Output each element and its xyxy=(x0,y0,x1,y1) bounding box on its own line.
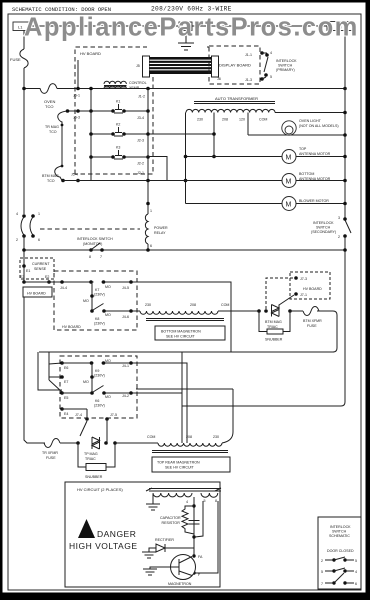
bottom magnetron xfmr winding xyxy=(140,311,218,314)
svg-text:TCO: TCO xyxy=(45,104,53,109)
svg-text:CAPACITOR: CAPACITOR xyxy=(160,516,181,520)
svg-text:TP MAG: TP MAG xyxy=(84,452,98,456)
interlock primary blade xyxy=(264,57,268,72)
left bus wire from L1 xyxy=(23,31,25,50)
svg-text:J2-2: J2-2 xyxy=(137,162,144,166)
svg-text:FUSE: FUSE xyxy=(10,57,21,62)
node J5-4 xyxy=(76,179,80,183)
svg-text:J7-5: J7-5 xyxy=(110,413,117,417)
svg-text:6: 6 xyxy=(355,582,357,586)
svg-text:ANTENNA MOTOR: ANTENNA MOTOR xyxy=(299,152,331,156)
svg-text:208: 208 xyxy=(186,435,192,439)
interlock secondary blade xyxy=(345,220,351,233)
node HV mid xyxy=(192,535,195,538)
bottom magnetron box xyxy=(155,326,225,340)
node E2 xyxy=(47,280,51,284)
svg-text:TCO: TCO xyxy=(47,179,55,183)
relay contact K1 row wire xyxy=(67,110,148,112)
svg-text:J3-4: J3-4 xyxy=(137,116,144,120)
display board dashed box xyxy=(209,46,260,84)
current sense dashed box xyxy=(20,258,54,279)
node main feed left xyxy=(22,87,26,91)
right bus wire xyxy=(344,31,346,251)
HV board label box xyxy=(23,287,52,297)
svg-text:MO: MO xyxy=(105,395,111,399)
svg-text:J4-6: J4-6 xyxy=(122,315,129,319)
node J1-3 xyxy=(260,77,264,81)
HV board top dashed box xyxy=(75,47,209,174)
svg-text:J5-1: J5-1 xyxy=(73,94,80,98)
node K3 x91 xyxy=(89,155,93,159)
wire fuse to corner xyxy=(317,311,337,352)
svg-text:CURRENT: CURRENT xyxy=(32,262,50,266)
interlock schematic box xyxy=(318,517,361,589)
svg-text:2: 2 xyxy=(16,238,18,242)
oven TCO xyxy=(38,84,57,94)
node K7 left xyxy=(89,280,93,284)
node K1 x91 xyxy=(89,109,93,113)
wire J7-5 down xyxy=(106,419,108,443)
node K8 left xyxy=(90,309,94,313)
svg-text:FUSE: FUSE xyxy=(46,456,56,460)
relay contact K9 gap xyxy=(94,361,102,365)
svg-text:TRIAC: TRIAC xyxy=(85,457,96,461)
svg-text:POWER: POWER xyxy=(154,226,168,230)
monitor interlock blade right xyxy=(30,217,33,235)
svg-text:SWITCH: SWITCH xyxy=(316,226,331,230)
wire relay to line xyxy=(147,244,149,250)
node J7-1 xyxy=(294,292,298,296)
monitor interlock node top xyxy=(22,214,26,218)
svg-text:J7-3: J7-3 xyxy=(300,277,307,281)
node tap drop K2 xyxy=(212,132,216,136)
svg-text:J4-4: J4-4 xyxy=(60,286,67,290)
snubber2 resistor xyxy=(86,464,106,471)
node y250 left xyxy=(22,248,26,252)
bottom antenna motor row wire xyxy=(63,180,345,182)
ground G2 xyxy=(142,552,156,558)
svg-text:E2: E2 xyxy=(45,275,49,279)
motor M3 xyxy=(282,197,296,211)
HV xfmr secondary core xyxy=(146,488,221,491)
svg-text:4: 4 xyxy=(270,51,272,55)
monitor contact node 7 xyxy=(100,248,104,252)
svg-text:HV BOARD: HV BOARD xyxy=(80,51,101,56)
snubber2 loop xyxy=(78,443,115,467)
svg-text:8: 8 xyxy=(89,255,91,259)
svg-text:BLOWER MOTOR: BLOWER MOTOR xyxy=(299,199,329,203)
oven light lamp xyxy=(282,121,296,135)
terminal box L3 xyxy=(327,22,353,31)
wire winding start down xyxy=(185,113,187,204)
wire E4 to J7-4 xyxy=(86,409,88,419)
svg-text:SCHEMATIC: SCHEMATIC xyxy=(329,534,350,538)
loop bottom wire y352 xyxy=(39,351,334,353)
node K9 left xyxy=(90,361,94,365)
svg-text:K6: K6 xyxy=(95,399,99,403)
svg-text:HV CIRCUIT (2 PLACES): HV CIRCUIT (2 PLACES) xyxy=(77,487,123,492)
svg-text:6: 6 xyxy=(150,244,152,248)
node J5-1 xyxy=(76,87,80,91)
wire COM to bus xyxy=(275,112,345,114)
image border bottom xyxy=(0,593,370,600)
svg-text:INTERLOCK: INTERLOCK xyxy=(313,221,334,225)
svg-text:(230V): (230V) xyxy=(94,322,105,326)
svg-text:E7: E7 xyxy=(64,380,68,384)
wire fuse to triac2 xyxy=(60,442,78,444)
node J4-5 xyxy=(129,280,133,284)
svg-text:MO: MO xyxy=(83,380,89,384)
node J4-1 xyxy=(129,361,133,365)
svg-text:J1-2: J1-2 xyxy=(138,95,145,99)
J5-1 stub wire xyxy=(77,60,79,89)
node trunk mid xyxy=(90,294,94,298)
monitor interlock node bottom xyxy=(22,234,26,238)
snubber1 resistor xyxy=(267,329,283,334)
wire J1-3 to contact 5 xyxy=(262,77,266,79)
node triac1 right xyxy=(288,309,292,313)
svg-text:K2: K2 xyxy=(116,123,120,127)
svg-text:BTM XFMR: BTM XFMR xyxy=(303,319,322,323)
top rail wire L1 to L3 xyxy=(30,25,327,27)
node K6 right xyxy=(102,391,106,395)
node secondary 3 xyxy=(343,217,347,221)
node K1 right xyxy=(122,109,126,113)
svg-text:M: M xyxy=(286,179,292,186)
svg-text:SWITCH: SWITCH xyxy=(332,530,347,534)
svg-text:2: 2 xyxy=(338,235,340,239)
svg-text:5: 5 xyxy=(355,559,357,563)
K9 row wire y363 xyxy=(62,362,182,364)
svg-text:E5: E5 xyxy=(64,396,68,400)
wire J1-1 to contact 4 xyxy=(262,52,267,54)
svg-text:J4-2: J4-2 xyxy=(122,394,129,398)
HV circuit box xyxy=(65,482,220,587)
node K1 left xyxy=(111,109,115,113)
node y250 bus xyxy=(343,248,347,252)
auto transformer winding xyxy=(186,109,275,112)
svg-text:ANTENNA MOTOR: ANTENNA MOTOR xyxy=(299,177,331,181)
node COM bus xyxy=(343,111,347,115)
J7-4 gate blade xyxy=(80,421,87,436)
svg-text:HIGH VOLTAGE: HIGH VOLTAGE xyxy=(69,541,138,551)
HV board J7 dashed box xyxy=(290,272,330,299)
wire N0 to ground xyxy=(185,31,187,44)
wire triac2 to winding xyxy=(115,442,158,444)
node oven light bus xyxy=(343,133,347,137)
ground G1 xyxy=(146,504,160,510)
blower motor row wire xyxy=(186,203,346,205)
HV xfmr winding B xyxy=(201,493,218,497)
svg-text:J2-3: J2-3 xyxy=(137,139,144,143)
node E3 xyxy=(22,280,26,284)
node K6 left xyxy=(90,391,94,395)
svg-text:MO: MO xyxy=(105,285,111,289)
terminal box N0 xyxy=(179,22,192,31)
motor M1 xyxy=(282,150,296,164)
node J4-2 xyxy=(129,391,133,395)
svg-text:K8: K8 xyxy=(95,317,99,321)
svg-text:J5-3: J5-3 xyxy=(73,116,80,120)
svg-text:SNUBBER: SNUBBER xyxy=(85,475,103,479)
node tap drop row1 xyxy=(212,155,216,159)
node K2 feeder xyxy=(146,132,150,136)
svg-text:HV BOARD: HV BOARD xyxy=(27,292,46,296)
svg-text:AUTO TRANSFORMER: AUTO TRANSFORMER xyxy=(215,96,258,101)
ground G3 xyxy=(143,569,157,575)
diode wire xyxy=(165,547,194,549)
node K9 right xyxy=(102,361,106,365)
K9-K6 trunk wire xyxy=(91,363,93,393)
svg-text:J5-4: J5-4 xyxy=(71,173,78,177)
node E4 xyxy=(60,407,64,411)
relay contact K1 xyxy=(114,104,123,113)
image border top xyxy=(0,0,370,3)
node motor1 left xyxy=(184,155,188,159)
svg-text:(SECONDARY): (SECONDARY) xyxy=(311,230,336,234)
svg-text:FA: FA xyxy=(198,555,203,559)
K6 blade xyxy=(93,386,104,393)
left bus below monitor xyxy=(23,235,25,282)
TR MAG TCO xyxy=(58,111,67,166)
tap vertical x187 xyxy=(182,363,187,443)
second section box left edge xyxy=(38,352,62,390)
node J4-4 xyxy=(60,280,64,284)
node jog row2 xyxy=(184,179,188,183)
svg-text:5: 5 xyxy=(270,75,272,79)
lower HV board dashed box xyxy=(60,356,137,418)
monitor interlock blade left xyxy=(21,217,24,235)
svg-text:3: 3 xyxy=(338,216,340,220)
node J7-5 xyxy=(105,417,109,421)
tap drop wire x214 xyxy=(213,113,215,157)
svg-text:COM: COM xyxy=(259,118,267,122)
monitor interlock node top right xyxy=(31,214,35,218)
image border right xyxy=(366,0,370,600)
svg-text:4: 4 xyxy=(16,212,18,216)
monitor contact blade xyxy=(92,243,100,249)
svg-text:208/230V 60Hz 3-WIRE: 208/230V 60Hz 3-WIRE xyxy=(151,6,232,13)
svg-text:CONTROL: CONTROL xyxy=(129,81,147,85)
top magnetron box xyxy=(152,457,230,472)
triac1 gate wire xyxy=(279,295,294,305)
node J1-1 xyxy=(260,51,264,55)
svg-text:J7-1: J7-1 xyxy=(300,293,307,297)
svg-text:J5: J5 xyxy=(136,64,140,68)
node K1 feeder xyxy=(146,109,150,113)
node motor2 bus xyxy=(343,179,347,183)
second section box right edge xyxy=(181,352,183,443)
svg-text:TR XFMR: TR XFMR xyxy=(42,451,58,455)
svg-text:K1: K1 xyxy=(116,100,120,104)
TR xfmr fuse xyxy=(44,439,60,448)
relay contact K2 xyxy=(114,127,123,136)
svg-text:(230V): (230V) xyxy=(94,374,105,378)
node trunk2 mid xyxy=(90,375,94,379)
top xfmr core xyxy=(152,451,228,453)
left bus wire below fuse xyxy=(23,68,25,214)
leg 8 wire xyxy=(196,501,219,573)
top mag loop wire xyxy=(136,388,233,390)
fuse F1 xyxy=(20,49,28,68)
wire xfmr to triac xyxy=(218,310,258,312)
magnetron tube xyxy=(171,555,196,580)
node motor1 bus xyxy=(343,155,347,159)
node TR MAG TCO bottom xyxy=(61,124,64,127)
svg-text:7: 7 xyxy=(100,255,102,259)
svg-text:MO: MO xyxy=(83,299,89,303)
svg-text:SNUBBER: SNUBBER xyxy=(265,338,283,342)
svg-text:AppliancePartsPros.com: AppliancePartsPros.com xyxy=(24,14,359,42)
node K2 x91 xyxy=(89,132,93,136)
node secondary 2 xyxy=(343,234,347,238)
node E5 xyxy=(60,391,64,395)
node J7-4 xyxy=(85,417,89,421)
HV main vertical wire xyxy=(193,497,195,556)
svg-text:DOOR CLOSED: DOOR CLOSED xyxy=(327,549,354,553)
auto transformer core xyxy=(194,102,275,104)
bleed resistor xyxy=(182,506,194,534)
monitor dashed pointer xyxy=(40,228,140,230)
ground xyxy=(178,43,194,50)
top magnetron xfmr winding xyxy=(158,443,222,446)
svg-text:208: 208 xyxy=(222,118,228,122)
node triac1 gate foot xyxy=(264,309,268,313)
power relay coil xyxy=(145,214,148,244)
BTM xfmr fuse xyxy=(303,307,319,316)
svg-text:INTERLOCK: INTERLOCK xyxy=(276,59,297,63)
svg-text:5: 5 xyxy=(321,570,323,574)
svg-text:SWITCH: SWITCH xyxy=(278,64,293,68)
svg-text:BOTTOM: BOTTOM xyxy=(299,172,314,176)
svg-text:HV BOARD: HV BOARD xyxy=(303,287,322,291)
node BTM MAG TCO top xyxy=(61,165,64,168)
triac BTM MAG xyxy=(272,305,280,317)
svg-text:208: 208 xyxy=(190,303,196,307)
K7-K8 trunk wire xyxy=(91,282,93,311)
svg-text:(230V): (230V) xyxy=(94,293,105,297)
node contact 4 xyxy=(265,53,269,57)
svg-text:230: 230 xyxy=(197,118,203,122)
monitor contact node 8 xyxy=(89,248,93,252)
svg-text:COM: COM xyxy=(147,435,155,439)
main feed wire y88 xyxy=(24,88,38,90)
node snubber2 right xyxy=(113,441,117,445)
svg-text:TOP: TOP xyxy=(299,147,307,151)
svg-text:J1-3: J1-3 xyxy=(245,78,252,82)
node J1-2 xyxy=(146,87,150,91)
svg-text:L1: L1 xyxy=(18,25,23,30)
filament leg wire xyxy=(152,494,154,504)
HV xfmr winding A xyxy=(153,493,192,497)
svg-text:E3: E3 xyxy=(20,275,24,279)
oven light wire xyxy=(248,134,345,136)
svg-text:TOP REAR MAGNETRON: TOP REAR MAGNETRON xyxy=(157,461,200,465)
svg-text:J4-1: J4-1 xyxy=(122,364,129,368)
triac TOP MAG xyxy=(92,437,100,449)
monitor interlock node bottom right xyxy=(31,234,35,238)
K8 row wire y311 xyxy=(104,310,140,312)
node FA xyxy=(192,554,195,557)
relay contact K2 row wire xyxy=(91,133,214,135)
svg-text:XFMR: XFMR xyxy=(129,86,140,90)
svg-text:DISPLAY BOARD: DISPLAY BOARD xyxy=(219,63,251,68)
svg-text:TR MAG: TR MAG xyxy=(45,125,59,129)
wire oven light tap xyxy=(247,113,249,136)
E4 row wire xyxy=(62,408,87,410)
bottom rail wire y443 xyxy=(43,442,45,444)
svg-text:8: 8 xyxy=(215,499,217,503)
BTM MAG TCO xyxy=(55,166,62,181)
svg-text:230: 230 xyxy=(213,435,219,439)
svg-text:SENSE: SENSE xyxy=(34,267,47,271)
door sw row1 xyxy=(325,557,354,562)
svg-text:BOTTOM MAGNETRON: BOTTOM MAGNETRON xyxy=(161,330,201,334)
control transformer T1 xyxy=(104,81,127,88)
E bracket wire xyxy=(49,352,62,392)
svg-text:M: M xyxy=(286,202,292,209)
node E6 xyxy=(60,361,64,365)
node F xyxy=(192,571,195,574)
svg-text:M: M xyxy=(286,155,292,162)
node J4-6 xyxy=(129,309,133,313)
svg-text:J7-4: J7-4 xyxy=(75,413,82,417)
svg-text:230: 230 xyxy=(145,303,151,307)
leg 5 wire xyxy=(195,501,203,537)
node x91 top xyxy=(89,87,93,91)
svg-text:SEE HV CIRCUIT: SEE HV CIRCUIT xyxy=(166,335,196,339)
svg-text:6: 6 xyxy=(38,238,40,242)
node y250 relay xyxy=(146,248,150,252)
svg-text:BTM MAG: BTM MAG xyxy=(265,320,282,324)
node E1 xyxy=(22,264,26,268)
svg-text:MAGNETRON: MAGNETRON xyxy=(168,582,192,586)
K7 row wire y282 xyxy=(24,282,231,352)
danger triangle xyxy=(78,519,95,538)
node triac1 left xyxy=(257,309,261,313)
node triac2 right xyxy=(104,441,108,445)
node TCO chain at motor row xyxy=(61,179,65,183)
bottom xfmr core xyxy=(146,319,224,321)
node motor3 bus xyxy=(343,202,347,206)
terminal box L1 xyxy=(13,22,30,31)
svg-text:RECTIFIER: RECTIFIER xyxy=(155,538,174,542)
node motor2 feeder xyxy=(146,179,150,183)
svg-text:INTERLOCK SWITCH: INTERLOCK SWITCH xyxy=(77,237,113,241)
svg-text:5: 5 xyxy=(204,499,206,503)
main feed wire continues xyxy=(57,88,345,90)
svg-text:1: 1 xyxy=(150,209,152,213)
svg-text:7: 7 xyxy=(321,582,323,586)
K8 blade xyxy=(93,304,104,311)
svg-text:MO: MO xyxy=(105,313,111,317)
svg-text:4: 4 xyxy=(186,500,188,504)
svg-text:E4: E4 xyxy=(64,412,68,416)
left chain vertical x91 xyxy=(90,89,92,181)
relay contact K3 row wire xyxy=(91,156,148,158)
svg-text:(NOT ON ALL MODELS): (NOT ON ALL MODELS) xyxy=(299,124,339,128)
feeder wire x148 xyxy=(147,89,149,215)
svg-text:MO: MO xyxy=(105,359,111,363)
node K1 chain xyxy=(66,109,70,113)
node K3 feeder xyxy=(146,155,150,159)
node contact 5 xyxy=(264,73,268,77)
svg-text:SCHEMATIC CONDITION: DOOR OPEN: SCHEMATIC CONDITION: DOOR OPEN xyxy=(12,6,111,13)
node K1 J5-3 xyxy=(76,109,80,113)
svg-text:HV BOARD: HV BOARD xyxy=(62,325,81,329)
ribbon cable left cap xyxy=(143,56,150,77)
magnetron wire left ground xyxy=(150,567,171,569)
